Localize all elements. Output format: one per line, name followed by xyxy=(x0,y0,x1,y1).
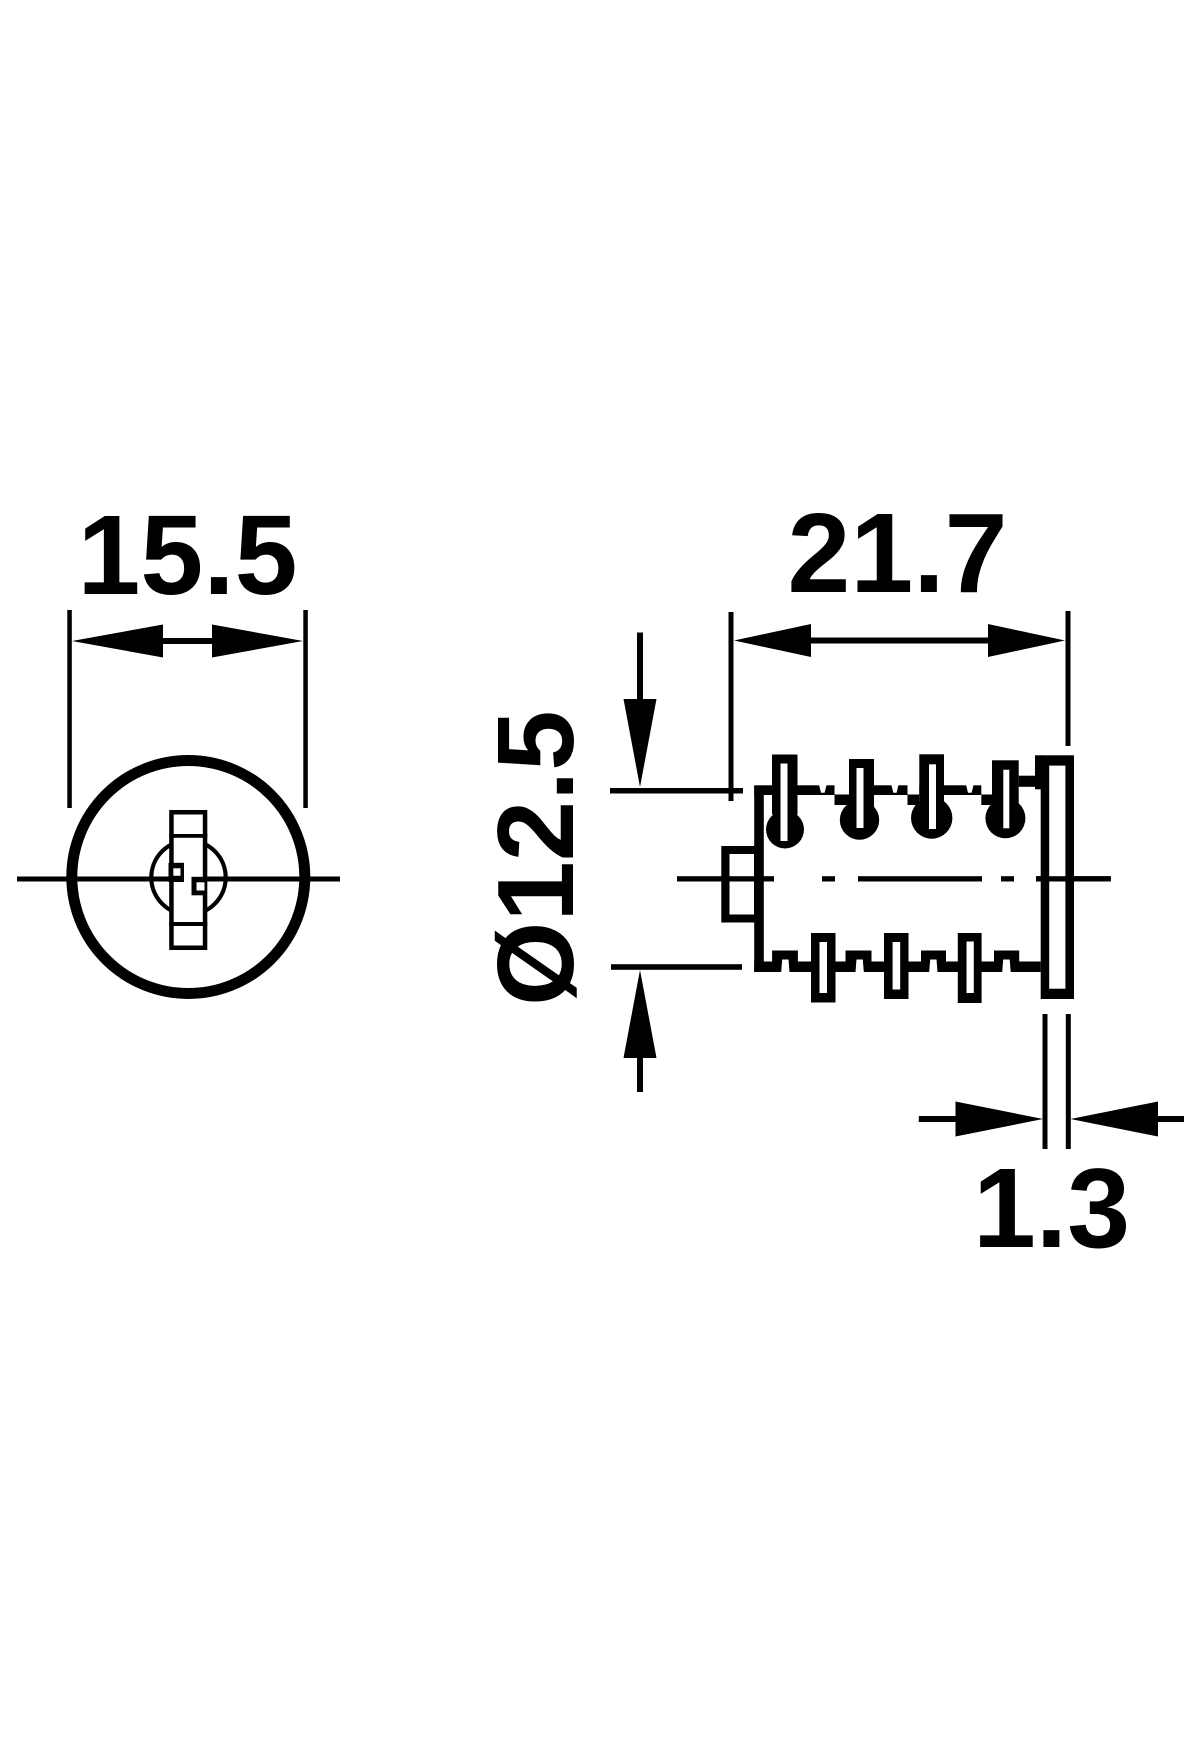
wafer tumbler 2 xyxy=(884,933,909,999)
bottom profile block 2 xyxy=(846,951,872,962)
dimension line 21.7 xyxy=(805,638,995,644)
bottom profile block 4 xyxy=(994,951,1019,962)
centerline (side view, dash-dot) xyxy=(677,876,1111,881)
bottom profile slot 4 xyxy=(1002,960,1011,973)
top profile notch 2 xyxy=(891,784,899,793)
dimension line 15.5 xyxy=(160,638,215,644)
lower measuring bar (Ø12.5) xyxy=(611,964,742,970)
pin tumbler 1 xyxy=(766,755,804,849)
svg-text:21.7: 21.7 xyxy=(788,490,1008,616)
extension line right (15.5) xyxy=(303,610,308,808)
centerline across flange xyxy=(1036,876,1111,881)
arrowhead right (15.5) xyxy=(212,625,303,658)
keyway divider top xyxy=(169,834,207,838)
body top band lower segments xyxy=(835,795,993,806)
pin tumbler 3 xyxy=(911,754,952,838)
bottom profile block 1 xyxy=(772,951,798,962)
arrowhead right (21.7) xyxy=(988,624,1065,657)
arrow up (Ø12.5 lower) xyxy=(624,970,657,1092)
wafer tumbler 3 xyxy=(958,933,982,1003)
bottom profile block 3 xyxy=(921,951,946,962)
arrow right (1.3) xyxy=(1071,1102,1185,1137)
bottom profile slot 1 xyxy=(781,960,789,973)
svg-text:1.3: 1.3 xyxy=(973,1145,1130,1271)
body top band upper segments xyxy=(754,755,1042,795)
keyway slot body xyxy=(169,810,207,950)
arrow left (1.3) xyxy=(919,1102,1043,1137)
pin tumbler 4 xyxy=(985,760,1025,838)
wafer tumbler 1 xyxy=(811,933,836,1003)
cylinder nub (left end) xyxy=(721,846,758,923)
keyway divider bottom xyxy=(169,922,207,926)
bottom profile slot 2 xyxy=(856,960,864,973)
body left wall xyxy=(754,786,764,972)
top profile notch 1 xyxy=(819,784,827,793)
extension line right (21.7) xyxy=(1066,611,1071,746)
keyway notch left xyxy=(169,863,185,882)
arrowhead left (21.7) xyxy=(734,624,811,657)
keyway notch right xyxy=(192,877,207,896)
inner circle (plug) xyxy=(151,840,225,914)
top profile notch 3 xyxy=(966,784,974,793)
extension line left (15.5) xyxy=(67,610,72,808)
body bottom band xyxy=(754,962,1040,973)
extension line left (1.3) xyxy=(1043,1014,1048,1149)
horizontal centerline (front view) xyxy=(17,877,340,882)
svg-text:15.5: 15.5 xyxy=(78,492,298,618)
extension line left (21.7) xyxy=(729,612,734,801)
pin tumbler 2 xyxy=(840,759,879,840)
arrow down (Ø12.5 upper) xyxy=(624,633,657,788)
arrowhead left (15.5) xyxy=(72,625,163,658)
bottom profile slot 3 xyxy=(929,960,937,973)
extension line right (1.3) xyxy=(1066,1014,1071,1149)
flange (rear plate) xyxy=(1041,755,1074,999)
svg-text:Ø12.5: Ø12.5 xyxy=(475,710,596,1006)
outer circle (cylinder face) xyxy=(72,761,305,994)
upper measuring bar (Ø12.5) xyxy=(610,788,743,794)
